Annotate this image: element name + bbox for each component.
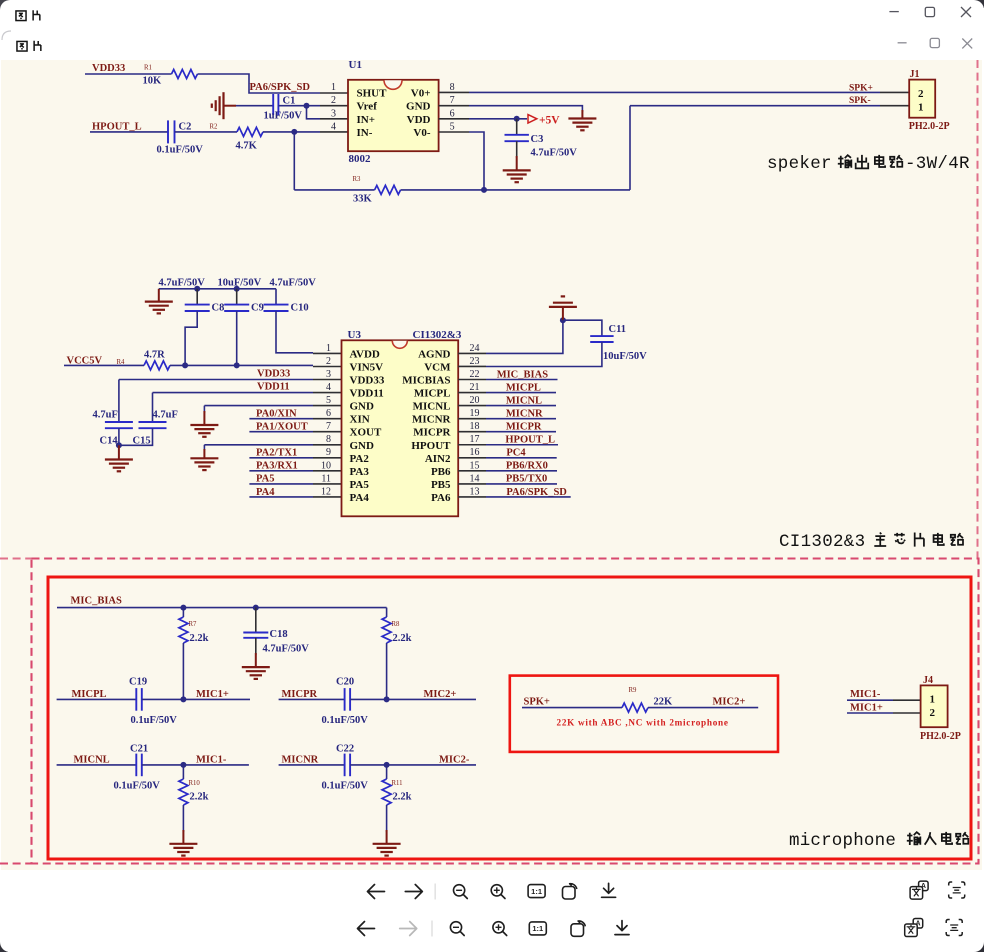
svg-text:20: 20: [470, 395, 480, 406]
wire rail to C8: [196, 289, 198, 305]
wire VDD33: [85, 73, 172, 75]
wire MICNR: [486, 418, 556, 420]
capacitor C22: [344, 754, 346, 777]
wire PA0/XIN: [249, 418, 313, 420]
wire C11 to pin23 VCM: [486, 342, 602, 367]
pin stub J1 pin2: [880, 91, 909, 93]
svg-text:4.7uF/50V: 4.7uF/50V: [531, 148, 578, 159]
wire VDD33 down to C14: [118, 380, 120, 423]
svg-text:MICNR: MICNR: [282, 755, 319, 766]
svg-text:C8: C8: [212, 303, 225, 314]
svg-text:MIC_BIAS: MIC_BIAS: [497, 369, 549, 380]
svg-text:C11: C11: [609, 324, 627, 335]
wire MIC1- to J4: [847, 699, 893, 701]
pin stub U3 pin10: [313, 470, 342, 472]
wire MIC1+ to J4: [847, 712, 893, 714]
wire C15 to ground node: [119, 428, 153, 445]
svg-text:PB6: PB6: [431, 466, 451, 478]
wire C20 to MIC2+ node: [350, 698, 476, 700]
svg-text:R7: R7: [189, 621, 198, 628]
wire MICNL to C21: [57, 764, 137, 766]
svg-text:6: 6: [326, 408, 331, 419]
svg-text:MICNR: MICNR: [412, 414, 452, 426]
junction node MIC1-: [180, 762, 186, 768]
svg-text:MIC2-: MIC2-: [439, 755, 470, 766]
svg-text:+5V: +5V: [539, 114, 560, 126]
junction node VDD: [514, 116, 520, 122]
capacitor C19: [135, 688, 137, 711]
svg-text:PA5: PA5: [256, 474, 274, 485]
junction node C14/C15 ground: [116, 442, 122, 448]
svg-text:Vref: Vref: [357, 101, 378, 113]
svg-text:8: 8: [326, 434, 331, 445]
svg-text:C20: C20: [336, 677, 354, 688]
toolbar1 forward arrow: [405, 885, 422, 899]
junction node MIC2+: [384, 696, 390, 702]
svg-text:HPOUT: HPOUT: [411, 440, 451, 452]
svg-text:22: 22: [470, 369, 480, 380]
wire R10 to ground: [182, 805, 184, 832]
svg-text:10uF/50V: 10uF/50V: [603, 351, 647, 362]
pin stub U3 pin9: [313, 457, 342, 459]
resistor R8: [382, 617, 391, 643]
resistor R3: [375, 185, 401, 194]
wire SPK- to J1: [630, 105, 880, 107]
note frame (red): [510, 676, 778, 752]
pin stub U3 pin7: [313, 431, 342, 433]
capacitor C15: [139, 421, 167, 423]
svg-text:PA0/XIN: PA0/XIN: [256, 408, 297, 419]
ground at pin7: [568, 119, 596, 131]
pin stub U3 pin6: [313, 418, 342, 420]
wire U3 pin5 GND: [204, 405, 313, 407]
wire R1 to PA6/SPK_SD: [198, 74, 321, 93]
pin stub U3 pin2: [313, 366, 342, 368]
toolbar1 translate: [919, 881, 929, 891]
svg-text:HPOUT_L: HPOUT_L: [92, 122, 142, 133]
svg-text:0.1uF/50V: 0.1uF/50V: [157, 145, 204, 156]
wire rail corner to R8: [386, 608, 388, 617]
junction node MIC1+: [180, 696, 186, 702]
toolbar1 1:1: [528, 885, 545, 898]
toolbar1 back arrow: [368, 885, 385, 899]
ground at pin8: [190, 458, 218, 470]
capacitor C9: [224, 304, 249, 306]
toolbar2 zoom out: [450, 922, 461, 933]
svg-text:1:1: 1:1: [531, 887, 542, 896]
feedback wire to R3: [294, 189, 374, 191]
svg-text:XOUT: XOUT: [350, 427, 382, 439]
+5V power symbol: [528, 115, 537, 123]
svg-text:PA1/XOUT: PA1/XOUT: [256, 422, 308, 433]
dashed border: lower section rectangle: [32, 559, 979, 864]
svg-text:PA3: PA3: [350, 466, 370, 478]
svg-text:0.1uF/50V: 0.1uF/50V: [114, 781, 161, 792]
wire C1 to Vref node: [278, 105, 320, 107]
svg-text:PA6: PA6: [431, 492, 451, 504]
svg-text:0.1uF/50V: 0.1uF/50V: [322, 715, 369, 726]
svg-text:C1: C1: [283, 96, 296, 107]
svg-text:C19: C19: [129, 677, 147, 688]
svg-text:12: 12: [321, 486, 331, 497]
svg-text:C2: C2: [179, 122, 192, 133]
svg-text:MICNR: MICNR: [506, 408, 543, 419]
svg-text:2: 2: [930, 707, 936, 719]
wire VDD11 down to C15: [152, 393, 154, 422]
svg-text:J1: J1: [910, 69, 920, 80]
wire MIC_BIAS rail: [57, 607, 387, 609]
svg-text:PH2.0-2P: PH2.0-2P: [920, 731, 961, 742]
svg-text:SPK+: SPK+: [849, 83, 873, 93]
wire top bypass rail: [159, 288, 276, 290]
wire V0- pin5 down to feedback: [469, 132, 484, 190]
svg-text:1:1: 1:1: [532, 924, 543, 933]
wire node to IN+: [307, 106, 321, 119]
ground at C14: [105, 460, 133, 472]
svg-text:MIC1+: MIC1+: [196, 689, 229, 700]
wire R11 to ground: [386, 805, 388, 832]
wire C14 to ground node: [118, 428, 120, 447]
wire PB5/TX0: [486, 483, 557, 485]
pin stub U3 pin8: [313, 444, 342, 446]
pin stub U3 pin1: [313, 352, 342, 354]
capacitor C21: [135, 754, 137, 777]
junction node VCC C8: [182, 362, 188, 368]
svg-text:2.2k: 2.2k: [190, 633, 209, 644]
svg-text:C10: C10: [291, 303, 309, 314]
svg-text:1: 1: [930, 694, 936, 706]
svg-text:VDD33: VDD33: [92, 63, 125, 74]
junction node Vref: [304, 103, 310, 109]
svg-text:4.7uF: 4.7uF: [153, 410, 178, 421]
wire pin24 AGND: [486, 320, 563, 353]
wire MIC2- to R11: [386, 765, 388, 779]
pin stub U1 pin4: [320, 131, 348, 133]
toolbar2 1:1: [529, 922, 546, 935]
pin stub U3 pin5: [313, 405, 342, 407]
svg-text:18: 18: [470, 421, 480, 432]
svg-text:PA4: PA4: [350, 492, 370, 504]
window1 close button: [961, 7, 971, 17]
svg-text:PA6/SPK_SD: PA6/SPK_SD: [506, 487, 567, 498]
svg-text:24: 24: [470, 343, 480, 354]
svg-text:9: 9: [326, 447, 331, 458]
svg-text:MICPL: MICPL: [72, 689, 107, 700]
svg-text:C3: C3: [531, 134, 544, 145]
svg-text:MIC_BIAS: MIC_BIAS: [71, 596, 123, 607]
toolbar2 rotate: [571, 924, 584, 937]
resistor R1: [172, 70, 198, 79]
svg-text:PA5: PA5: [350, 479, 370, 491]
svg-text:4.7uF: 4.7uF: [93, 410, 118, 421]
svg-text:22K with ABC ,NC with 2microph: 22K with ABC ,NC with 2microphone: [557, 718, 729, 728]
svg-text:R8: R8: [392, 621, 401, 628]
dashed border: upper section right line: [977, 60, 979, 559]
svg-text:PA4: PA4: [256, 487, 275, 498]
svg-text:4.7uF/50V: 4.7uF/50V: [270, 278, 317, 289]
svg-text:MIC1-: MIC1-: [196, 755, 227, 766]
wire rail to R7: [182, 608, 184, 617]
pin stub U3 pin11: [313, 483, 342, 485]
U3 right pin stubs: [458, 352, 486, 354]
wire rail corner to C10: [275, 289, 277, 305]
wire C21 to MIC1- node: [142, 764, 249, 766]
svg-text:C14: C14: [100, 436, 119, 447]
junction node VCC C9: [234, 362, 240, 368]
toolbar1 rotate: [563, 887, 576, 900]
svg-text:3: 3: [326, 369, 331, 380]
wire R7 to MIC1+: [182, 643, 184, 699]
svg-text:C22: C22: [336, 744, 354, 755]
svg-text:PA3/RX1: PA3/RX1: [256, 461, 298, 472]
svg-text:PB6/RX0: PB6/RX0: [506, 461, 548, 472]
wire R3 to V0- node: [401, 189, 630, 191]
resistor R2: [237, 127, 263, 136]
pin stub U1 pin1: [320, 92, 348, 94]
toolbar1 zoom out: [454, 885, 465, 896]
svg-text:17: 17: [470, 434, 480, 445]
wire R4 to U3 pin2: [170, 364, 313, 366]
wire R2 to IN-: [263, 131, 320, 133]
svg-text:2: 2: [326, 356, 331, 367]
svg-text:1: 1: [326, 343, 331, 354]
junction node rail R7: [180, 605, 186, 611]
svg-text:0.1uF/50V: 0.1uF/50V: [131, 715, 178, 726]
capacitor C8: [185, 304, 210, 306]
svg-text:U3: U3: [348, 329, 362, 341]
svg-text:7: 7: [326, 421, 331, 432]
capacitor C18: [243, 632, 268, 634]
svg-text:VCM: VCM: [424, 361, 451, 373]
dashed border: section divider line: [0, 558, 32, 560]
svg-text:AGND: AGND: [418, 348, 450, 360]
dashed border: bottom divider extension: [0, 862, 32, 864]
svg-text:3: 3: [331, 108, 336, 119]
wire MIC1- to R10: [182, 765, 184, 779]
capacitor C2: [167, 120, 169, 143]
svg-text:PA2: PA2: [350, 453, 370, 465]
svg-text:R3: R3: [353, 176, 362, 183]
junction node V0- feedback: [481, 187, 487, 193]
svg-text:4: 4: [326, 382, 331, 393]
junction node rail C18: [253, 605, 259, 611]
svg-text:R2: R2: [210, 124, 219, 131]
svg-text:15: 15: [470, 460, 480, 471]
svg-text:MIC1-: MIC1-: [850, 689, 881, 700]
ground stem pin8: [203, 445, 205, 450]
pin stub U3 pin12: [313, 496, 342, 498]
toolbar2 back arrow: [358, 922, 375, 936]
toolbar2 zoom in: [493, 922, 504, 933]
svg-text:C21: C21: [130, 744, 148, 755]
svg-text:5: 5: [450, 122, 455, 133]
microphone section red frame: [48, 577, 971, 859]
wire C22 to MIC2- node: [350, 764, 476, 766]
svg-text:2: 2: [918, 88, 924, 100]
svg-text:CI1302&3: CI1302&3: [413, 329, 462, 341]
svg-text:2.2k: 2.2k: [393, 633, 412, 644]
svg-text:MIC1+: MIC1+: [850, 703, 883, 714]
inverted ground at AGND: [549, 296, 577, 307]
wire MICPR to C20: [279, 698, 345, 700]
op-amp U1 body: [348, 80, 439, 151]
wire VDD pin6: [469, 118, 527, 120]
svg-text:7: 7: [450, 95, 455, 106]
svg-text:VIN5V: VIN5V: [350, 361, 384, 373]
IC U3 body: [342, 340, 459, 516]
wire feedback up to SPK-: [629, 106, 631, 190]
toolbar2 scan text: [946, 920, 962, 936]
svg-text:R4: R4: [117, 359, 126, 366]
ground stem pin5: [203, 406, 205, 413]
toolbar1 download: [604, 883, 614, 893]
svg-text:V0+: V0+: [411, 87, 431, 99]
U1 notch: [384, 80, 402, 89]
wire PA5: [249, 483, 313, 485]
wire PA1/XOUT: [249, 431, 313, 433]
svg-text:SHUT: SHUT: [357, 87, 388, 99]
wire GND pin7: [469, 106, 582, 112]
svg-text:speker: speker: [767, 154, 832, 174]
svg-text:PC4: PC4: [506, 448, 526, 459]
svg-text:SPK-: SPK-: [849, 96, 871, 106]
svg-text:microphone: microphone: [789, 831, 896, 851]
wire C19 to MIC1+ node: [142, 698, 250, 700]
wire AGND node to C11: [563, 320, 602, 336]
resistor R9: [622, 703, 648, 712]
capacitor C3: [505, 134, 529, 136]
svg-text:10K: 10K: [143, 76, 163, 87]
wire PB6/RX0: [486, 470, 557, 472]
svg-text:HPOUT_L: HPOUT_L: [505, 435, 555, 446]
wire HPOUT_L to C2: [90, 131, 168, 133]
wire rail to C18: [255, 608, 257, 633]
svg-text:C9: C9: [251, 303, 264, 314]
svg-text:MICPL: MICPL: [414, 388, 451, 400]
window2 close button: [962, 39, 972, 49]
wire MICNL: [486, 405, 556, 407]
svg-text:VDD11: VDD11: [257, 382, 290, 393]
toolbar2 separator: [431, 921, 433, 937]
svg-text:PA6/SPK_SD: PA6/SPK_SD: [250, 82, 311, 93]
connector J1 body: [909, 80, 935, 118]
svg-text:MICPR: MICPR: [282, 689, 318, 700]
svg-text:1: 1: [918, 102, 924, 114]
ground at R11: [373, 844, 401, 856]
resistor R4: [144, 361, 170, 370]
window1 minimize button: [889, 11, 898, 13]
ground at R10: [169, 844, 197, 856]
capacitor C20: [344, 688, 346, 711]
svg-text:IN+: IN+: [357, 114, 376, 126]
capacitor C14: [105, 421, 133, 423]
wire VDD33 to pin3: [119, 379, 313, 381]
junction node AGND: [560, 317, 566, 323]
svg-text:J4: J4: [923, 675, 933, 686]
wire PA3/RX1: [249, 470, 313, 472]
ground (left-pointing) at C1: [212, 92, 224, 119]
svg-text:4.7R: 4.7R: [144, 350, 165, 361]
svg-text:AIN2: AIN2: [425, 453, 451, 465]
wire MICNR to C22: [279, 764, 345, 766]
svg-text:MICPR: MICPR: [506, 422, 542, 433]
svg-text:4.7uF/50V: 4.7uF/50V: [263, 644, 310, 655]
wire C18 to ground: [255, 638, 257, 655]
wire VDD11 to pin4: [153, 392, 314, 394]
svg-text:XIN: XIN: [350, 414, 370, 426]
toolbar2 translate: [913, 919, 923, 929]
svg-text:PA2/TX1: PA2/TX1: [256, 448, 297, 459]
wire MIC_BIAS: [486, 379, 558, 381]
svg-text:16: 16: [470, 447, 480, 458]
svg-text:MICNL: MICNL: [506, 395, 542, 406]
wire C8 down jog to VCC rail: [185, 311, 197, 365]
ground stem pin7: [581, 110, 583, 119]
inner window rounded corner hint: [2, 31, 11, 40]
ground stem C14: [118, 445, 120, 459]
wire C9 down to VCC rail: [236, 311, 238, 365]
svg-text:0.1uF/50V: 0.1uF/50V: [322, 781, 369, 792]
svg-text:1uF/50V: 1uF/50V: [264, 111, 303, 122]
svg-text:VDD33: VDD33: [350, 375, 385, 387]
wire MICPL to C19: [57, 698, 137, 700]
svg-text:4.7K: 4.7K: [236, 141, 258, 152]
window2 title 图片: [17, 41, 41, 51]
svg-text:MICNL: MICNL: [74, 755, 110, 766]
U1 right pin stubs: [439, 91, 469, 93]
wire V0+ to SPK+: [469, 91, 880, 93]
feedback wire down from IN- node: [293, 132, 295, 190]
window2 minimize button: [898, 42, 907, 44]
wire ground to C1: [224, 105, 237, 107]
ground stem at rail: [158, 289, 160, 302]
svg-text:GND: GND: [350, 440, 375, 452]
svg-text:PH2.0-2P: PH2.0-2P: [909, 121, 950, 132]
wire node to C3: [516, 119, 518, 135]
toolbar1 separator: [434, 884, 436, 900]
svg-text:GND: GND: [406, 101, 431, 113]
svg-text:R9: R9: [629, 687, 638, 694]
pin stub U3 pin3: [313, 379, 342, 381]
svg-text:MICPL: MICPL: [506, 382, 541, 393]
wire C10 down to pin1: [276, 311, 313, 353]
U3 notch: [392, 341, 407, 349]
junction node IN-: [291, 129, 297, 135]
svg-text:PB5/TX0: PB5/TX0: [506, 474, 547, 485]
wire R8 to MIC2+: [386, 643, 388, 699]
wire SPK+ to R9: [522, 707, 622, 709]
svg-text:2.2k: 2.2k: [190, 792, 209, 803]
ground at C3: [503, 170, 531, 182]
pin stub U3 pin4: [313, 392, 342, 394]
junction node rail C8: [194, 286, 200, 292]
svg-text:IN-: IN-: [357, 127, 373, 139]
pin stub U1 pin3: [320, 118, 348, 120]
svg-text:2.2k: 2.2k: [393, 792, 412, 803]
svg-text:VDD33: VDD33: [257, 369, 290, 380]
svg-text:C18: C18: [270, 629, 288, 640]
svg-text:8: 8: [450, 82, 455, 93]
svg-text:U1: U1: [349, 59, 362, 71]
junction node MIC2-: [384, 762, 390, 768]
svg-text:MIC2+: MIC2+: [713, 697, 746, 708]
svg-text:V0-: V0-: [413, 127, 430, 139]
capacitor C1: [272, 94, 274, 115]
svg-text:CI1302&3: CI1302&3: [779, 532, 876, 552]
svg-text:14: 14: [470, 473, 480, 484]
pin stub U1 pin2: [320, 105, 348, 107]
wire PA2/TX1: [249, 457, 313, 459]
